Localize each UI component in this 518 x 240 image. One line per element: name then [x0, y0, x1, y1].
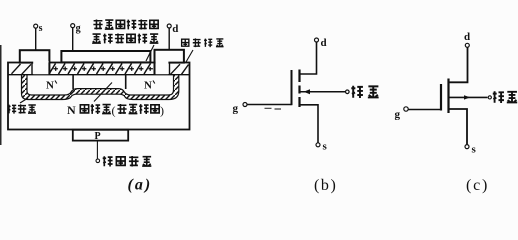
- (b) gate bar: [291, 70, 293, 105]
- depletion layer band (hatched) around N+ wells and channel: [22, 75, 179, 100]
- (c) substrate terminal circle: [488, 96, 491, 99]
- substrate contact P rectangle: [73, 130, 128, 141]
- (b) channel segment top: [298, 70, 300, 83]
- svg-text:P: P: [95, 131, 101, 142]
- gate metal plate: [61, 51, 150, 62]
- (b) source stub wire: [300, 105, 318, 143]
- (c) gate lead wire: [408, 109, 441, 111]
- svg-text:N: N: [67, 103, 76, 117]
- substrate lead line and circle: [96, 141, 98, 159]
- terminal s: lead, circle, letter: [35, 28, 37, 50]
- svg-text:d: d: [321, 37, 327, 49]
- depletion band outer boundary: [22, 75, 179, 100]
- (b) substrate label: [351, 86, 378, 98]
- (b) gate lead wire: [247, 104, 292, 106]
- label: depletion layer: [8, 104, 36, 113]
- label: doped insulating layer with positive ions (2 lines): [93, 19, 158, 29]
- (b) substrate arrow pointing at channel: [304, 89, 311, 94]
- (b) channel segment bottom: [298, 97, 300, 107]
- svg-text:(: (: [112, 104, 116, 118]
- (b) channel segment middle: [298, 86, 300, 94]
- (c) channel line solid: [447, 79, 449, 114]
- (c) substrate arrow: [464, 95, 470, 99]
- svg-text:s: s: [472, 144, 477, 156]
- (c) drain terminal circle: [465, 43, 469, 47]
- (b) source terminal circle: [316, 143, 320, 147]
- oxide right hatched block with drain contact window: [170, 64, 189, 75]
- (b) drain stub wire: [300, 42, 317, 74]
- svg-text:d: d: [172, 23, 178, 35]
- (b) substrate terminal circle: [346, 90, 350, 94]
- source metal contact block: [20, 50, 50, 62]
- (b) substrate stub wire: [301, 91, 346, 93]
- depletion band inner boundary / N+ well bottoms and channel top: [27, 75, 174, 95]
- right N+ well inner edge: [125, 75, 127, 89]
- (c) source terminal circle: [465, 145, 469, 149]
- left N+ well inner edge: [72, 75, 74, 89]
- source contact window through oxide: [33, 61, 48, 74]
- svg-text:(a): (a): [128, 177, 153, 194]
- oxide left hatched block with source contact window: [12, 64, 33, 75]
- (c) drain stub wire: [449, 48, 468, 83]
- svg-text:g: g: [76, 23, 81, 34]
- leader line from silicon dioxide label to oxide: [186, 50, 193, 62]
- leader line from insulator label to oxide: [146, 45, 154, 61]
- oxide strip with positive ions: / and + alternating: [49, 64, 151, 75]
- SiO2 oxide strip bottom line: [8, 74, 190, 76]
- svg-text:g: g: [395, 109, 401, 121]
- svg-text:s: s: [323, 141, 328, 153]
- svg-text:N: N: [46, 80, 54, 92]
- label: substrate lead wire: [103, 156, 152, 167]
- leader from depletion label to band: [20, 98, 28, 103]
- label: silicon dioxide: [182, 38, 224, 47]
- scan noise dashes under gate lead: [265, 107, 282, 110]
- svg-text:s: s: [39, 23, 43, 34]
- (c) gate terminal circle: [404, 107, 408, 111]
- svg-text:(b): (b): [314, 177, 337, 194]
- substrate body P outer box: [8, 63, 190, 130]
- svg-text:d: d: [464, 31, 470, 43]
- (c) gate bar: [440, 84, 442, 111]
- svg-text:g: g: [233, 103, 239, 115]
- terminal d: lead, circle, letter: [168, 28, 170, 50]
- + ion marks in oxide: [54, 67, 153, 71]
- svg-text:(c): (c): [466, 177, 489, 194]
- (b) gate terminal circle: [243, 103, 247, 107]
- scan artifact: dark left edge line: [0, 45, 2, 145]
- leader from channel label to channel strip: [94, 83, 112, 102]
- (c) source stub wire: [449, 109, 467, 144]
- (b) drain terminal circle: [315, 38, 319, 42]
- svg-text:): ): [160, 104, 164, 118]
- drain contact window through oxide: [156, 61, 169, 74]
- svg-text:N: N: [144, 80, 152, 92]
- drain metal contact block: [155, 50, 184, 63]
- (c) substrate label: [493, 91, 517, 103]
- terminal g: lead, circle, letter: [72, 28, 74, 51]
- (c) substrate stub wire: [449, 96, 488, 98]
